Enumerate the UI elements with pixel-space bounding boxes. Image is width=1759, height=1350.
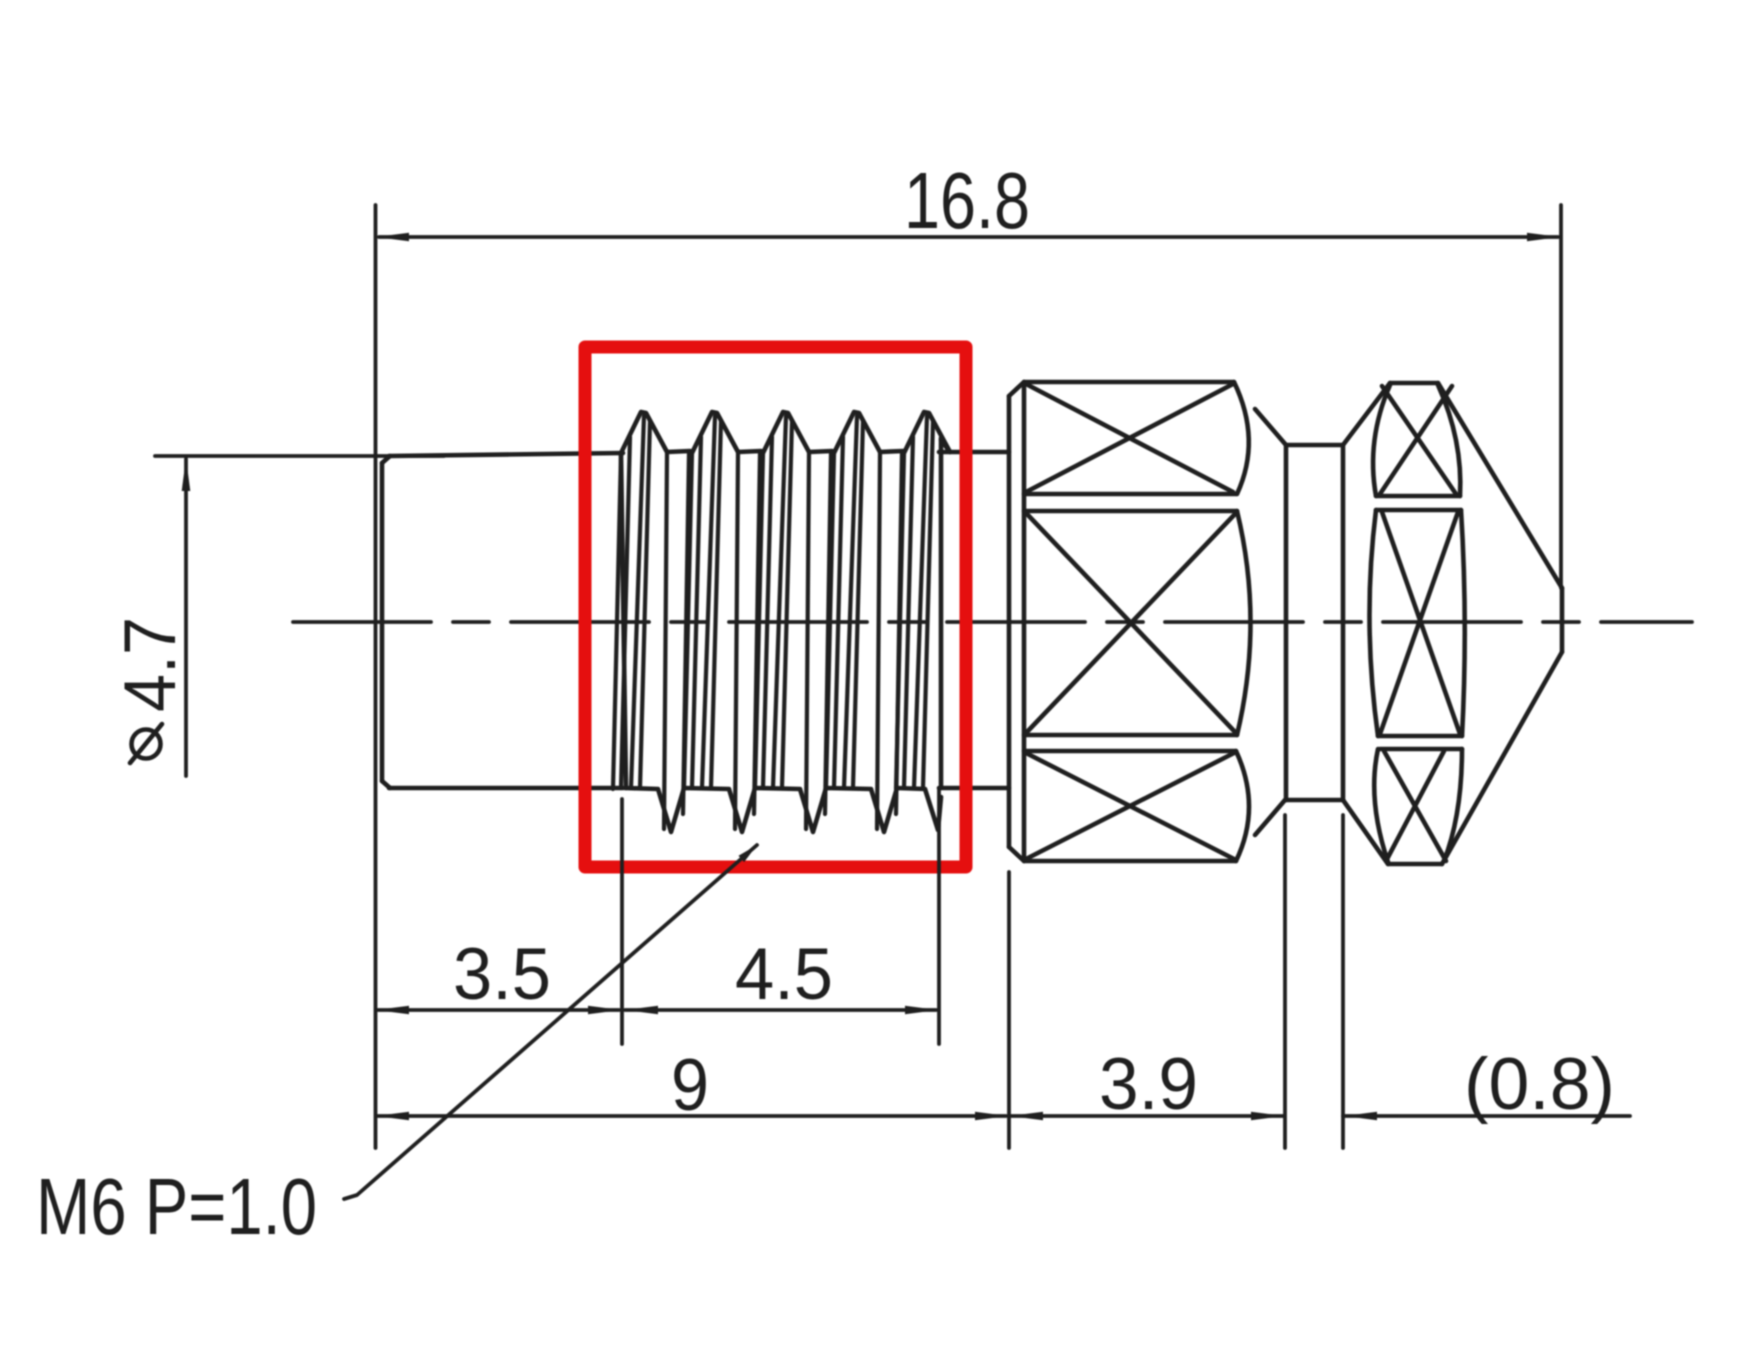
svg-text:(0.8): (0.8) bbox=[1464, 1044, 1615, 1125]
arrow 9 right bbox=[975, 1112, 1008, 1121]
tip right arc facet 3 bbox=[1444, 749, 1462, 861]
arrow 3.9 left bbox=[1010, 1112, 1043, 1121]
shaft top edge (between thread and hex) bbox=[939, 450, 1009, 455]
neck bottom edge bbox=[1285, 798, 1343, 803]
extension line left (overall) bbox=[374, 205, 378, 1148]
arrow 9 left bbox=[376, 1112, 409, 1121]
extension line thread start bbox=[620, 799, 624, 1044]
extension line phi4.7 top bbox=[155, 454, 444, 458]
shaft bottom edge (left of thread) bbox=[389, 786, 623, 791]
hex facet line 2b bbox=[1024, 749, 1236, 754]
svg-text:3.5: 3.5 bbox=[453, 934, 551, 1015]
tip right arc facet 1 bbox=[1438, 385, 1460, 496]
centerline (horizontal dash-dot axis) bbox=[293, 620, 1692, 624]
hex right bottom chamfer to neck bbox=[1255, 800, 1285, 835]
phi symbol slash bbox=[130, 724, 162, 763]
thread bottom crest profile bbox=[625, 788, 941, 832]
arrow 4.5 right bbox=[905, 1006, 938, 1015]
svg-text:4.5: 4.5 bbox=[735, 934, 833, 1015]
neck top edge bbox=[1286, 443, 1343, 448]
tip bottom-left slant bbox=[1343, 800, 1388, 864]
hex bottom edge bbox=[1024, 859, 1236, 864]
hex knurl cross facet 1 bbox=[1026, 384, 1233, 492]
tip facet line 1b bbox=[1376, 508, 1461, 513]
extension line neck right bbox=[1341, 815, 1345, 1148]
tip left arc facet 1 bbox=[1373, 385, 1390, 496]
dim line phi4.7 vertical bbox=[184, 459, 188, 776]
tip top flat bbox=[1390, 381, 1438, 386]
dim text 3.9 bbox=[1099, 1044, 1198, 1125]
arrow 4.5 left bbox=[625, 1006, 658, 1015]
arrow 0.8 left (pointing left at neck right line) bbox=[1344, 1112, 1377, 1121]
svg-text:4.7: 4.7 bbox=[110, 617, 191, 712]
svg-text:M6 P=1.0: M6 P=1.0 bbox=[36, 1162, 317, 1251]
dim line 16.8 bbox=[379, 235, 1558, 239]
hex knurl cross facet 3 bbox=[1026, 753, 1234, 859]
shaft bottom edge (between thread and hex) bbox=[939, 786, 1009, 791]
tip cone bottom line bbox=[1442, 652, 1562, 864]
tip facet line 2a bbox=[1378, 734, 1462, 739]
tip cone top line bbox=[1438, 383, 1562, 588]
neck right edge bbox=[1341, 445, 1346, 800]
leader arrowhead bbox=[739, 845, 758, 862]
hex left face edge bbox=[1007, 396, 1012, 847]
hex right arc facet 1 bbox=[1234, 382, 1249, 494]
tip facet line 1a bbox=[1376, 494, 1460, 499]
shaft left bottom chamfer bbox=[382, 781, 390, 788]
tip knurl cross facet 1 bbox=[1380, 386, 1456, 494]
extension line right at tip bbox=[1559, 205, 1563, 588]
dim line 4.5 bbox=[625, 1008, 936, 1012]
tip face bbox=[1560, 588, 1565, 652]
hex facet line 1b bbox=[1024, 509, 1237, 514]
dim text 9 bbox=[671, 1045, 709, 1126]
tip top-left slant bbox=[1343, 383, 1390, 445]
hex right top chamfer to neck bbox=[1255, 409, 1286, 445]
tip left arc facet 3 bbox=[1374, 749, 1388, 862]
extension line hex left bbox=[1007, 872, 1011, 1148]
hex inner left edge bbox=[1022, 382, 1027, 861]
arrow 3.5 right bbox=[588, 1006, 621, 1015]
hex facet line 1a bbox=[1024, 492, 1236, 497]
leader line from M6 text to thread bbox=[344, 845, 757, 1199]
label M6 P=1.0 bbox=[36, 1162, 317, 1251]
extension line neck left bbox=[1283, 815, 1287, 1148]
shaft left top chamfer bbox=[382, 456, 390, 463]
hex knurl cross facet 2 bbox=[1026, 513, 1236, 733]
extension line thread end bbox=[937, 790, 941, 1044]
red highlight box around threaded section bbox=[585, 347, 966, 867]
thread end edge bbox=[939, 438, 944, 788]
thread start edge bbox=[621, 454, 626, 788]
svg-text:3.9: 3.9 bbox=[1099, 1044, 1198, 1125]
shaft left end edge bbox=[380, 463, 385, 781]
shaft top edge (left of thread) bbox=[389, 453, 623, 456]
thread top crest profile bbox=[621, 412, 950, 455]
hex left bottom corner chamfer bbox=[1009, 847, 1024, 861]
dim text 3.5 bbox=[453, 934, 551, 1015]
dim text 4.5 bbox=[735, 934, 833, 1015]
dim line 3.9 bbox=[1011, 1114, 1283, 1118]
arrow phi4.7 up bbox=[182, 458, 191, 491]
tip left arc facet 2 bbox=[1369, 510, 1378, 736]
svg-text:9: 9 bbox=[671, 1045, 709, 1126]
tip knurl cross facet 3 bbox=[1384, 751, 1446, 861]
hex right arc facet 3 bbox=[1236, 751, 1249, 861]
arrow 3.5 left bbox=[376, 1006, 409, 1015]
dim text 4.7 rotated bbox=[110, 617, 191, 712]
dim line 0.8 (outside style) bbox=[1343, 1114, 1630, 1118]
tip right arc facet 2 bbox=[1461, 510, 1465, 736]
arrow 16.8 right bbox=[1527, 233, 1560, 242]
tip bottom flat bbox=[1388, 862, 1442, 867]
tip facet line 2b bbox=[1380, 747, 1462, 752]
arrow 16.8 left bbox=[376, 233, 409, 242]
hex right arc facet 2 bbox=[1237, 511, 1251, 735]
dim text (0.8) bbox=[1464, 1044, 1615, 1125]
dim line 3.5 bbox=[378, 1008, 619, 1012]
svg-text:16.8: 16.8 bbox=[904, 156, 1030, 245]
hex top edge bbox=[1024, 380, 1234, 385]
dim line 9 bbox=[378, 1114, 1006, 1118]
arrow 3.9 right bbox=[1251, 1112, 1284, 1121]
tip knurl cross facet 2 bbox=[1380, 512, 1460, 734]
hex facet line 2a bbox=[1024, 733, 1237, 738]
hex left top corner chamfer bbox=[1009, 382, 1024, 396]
thread helix flank lines bbox=[613, 416, 933, 829]
neck left edge bbox=[1284, 445, 1289, 800]
phi symbol circle bbox=[132, 730, 161, 759]
dim text 16.8 bbox=[904, 156, 1030, 245]
